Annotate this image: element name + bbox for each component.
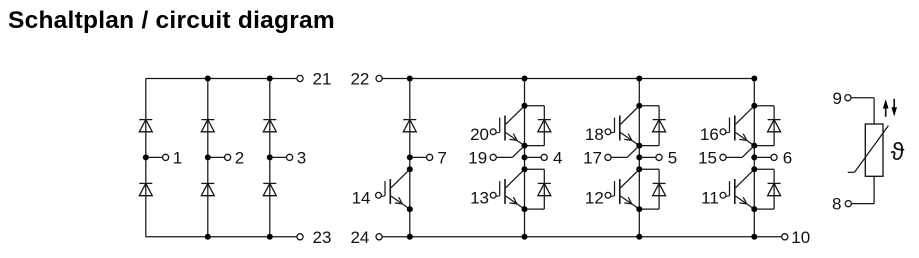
svg-text:19: 19 xyxy=(468,149,487,168)
svg-text:10: 10 xyxy=(791,228,810,247)
svg-text:16: 16 xyxy=(700,125,719,144)
svg-text:1: 1 xyxy=(173,149,182,168)
svg-text:8: 8 xyxy=(832,195,841,214)
svg-text:18: 18 xyxy=(585,125,604,144)
svg-text:2: 2 xyxy=(235,149,244,168)
svg-text:6: 6 xyxy=(783,149,792,168)
svg-text:22: 22 xyxy=(350,70,369,89)
svg-text:13: 13 xyxy=(470,188,489,207)
svg-text:3: 3 xyxy=(297,149,306,168)
svg-text:4: 4 xyxy=(553,149,562,168)
svg-text:24: 24 xyxy=(350,228,369,247)
svg-text:17: 17 xyxy=(583,149,602,168)
svg-text:11: 11 xyxy=(701,188,719,207)
svg-text:15: 15 xyxy=(698,149,717,168)
svg-text:12: 12 xyxy=(585,188,604,207)
svg-text:7: 7 xyxy=(437,149,446,168)
svg-text:20: 20 xyxy=(470,125,489,144)
svg-text:23: 23 xyxy=(313,228,332,247)
svg-text:5: 5 xyxy=(668,149,677,168)
svg-text:14: 14 xyxy=(352,188,371,207)
svg-text:9: 9 xyxy=(833,89,842,108)
svg-text:ϑ: ϑ xyxy=(891,138,905,166)
svg-text:21: 21 xyxy=(313,70,332,89)
